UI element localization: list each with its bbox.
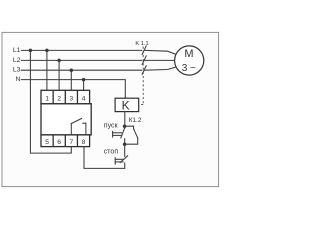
pushbutton ПУСК (start, NO) [113,126,125,144]
terminal 1 label [45,95,49,102]
junction dot L1 left tap [29,49,33,53]
internal relay output contact (terminals 7-8) [71,119,86,135]
contact K1.1 pole L3 blade [142,66,146,75]
svg-text:7: 7 [69,139,73,146]
node L3 [13,67,21,74]
node N [15,76,20,83]
svg-text:пуск: пуск [104,122,119,129]
svg-text:6: 6 [57,139,61,146]
pushbutton СТОП (stop, NC) [115,144,127,168]
junction dot start branch top [123,124,127,128]
svg-text:4: 4 [82,95,86,102]
svg-text:3 ~: 3 ~ [182,63,196,74]
node L1 [13,47,21,54]
node L2 [13,57,21,64]
terminal 8 label [82,139,86,146]
wire K1.1 to motor phase 3 [145,67,176,70]
terminal 5 label [45,139,49,146]
junction dot L1 to terminal 1 [45,49,49,53]
contact K1.1 pole L1 blade [142,46,176,75]
motor M 3~ [175,46,204,75]
wire L3 horizontal [21,69,142,71]
wire terminal 8 to stop button [84,147,125,169]
svg-text:M: M [184,48,193,60]
pushbutton ПУСК label [104,122,119,129]
terminal 4 label [82,95,86,102]
wire terminal 3 stub [70,70,72,90]
relay module (device body) [41,90,91,146]
junction dot L3 to terminal 3 [70,68,74,72]
svg-text:8: 8 [82,139,86,146]
svg-text:К1.2: К1.2 [129,117,142,124]
contact K1.2 (holding, NO) [125,126,138,144]
svg-text:5: 5 [45,139,49,146]
svg-text:2: 2 [57,95,61,102]
svg-text:стоп: стоп [104,148,119,155]
contact K1.2 label [129,117,142,124]
contact K1.1 mechanical linkage (dashed) [139,47,143,105]
svg-text:K 1.1: K 1.1 [135,41,148,47]
pushbutton СТОП label [104,148,119,155]
wire L1 to terminal 7 (down, right, up) [30,50,71,153]
wire K1.1 to motor phase 1 [145,50,176,54]
wire L1 horizontal [21,49,142,51]
svg-text:L2: L2 [13,57,21,64]
terminal 7 label [69,139,73,146]
svg-text:3: 3 [69,95,73,102]
wire terminal 2 stub [58,60,60,90]
terminal 2 label [57,95,61,102]
svg-text:N: N [15,76,20,83]
svg-text:L3: L3 [13,67,21,74]
junction dot L2 to terminal 2 [57,59,61,63]
contact K1.1 label [135,41,148,47]
wire terminal 1 stub [46,50,48,90]
terminal 3 label [69,95,73,102]
contact K1.1 pole L2 blade [142,56,146,65]
wire terminal 4 stub [83,80,85,91]
wire L2 horizontal [21,59,142,61]
contactor coil K [115,98,139,112]
wire K1.1 to motor phase 2 [145,59,175,61]
svg-text:K: K [122,98,130,112]
terminal 6 label [57,139,61,146]
wire coil K to start circuit [124,112,126,127]
svg-text:1: 1 [45,95,49,102]
junction dot N to terminal 4 [82,78,86,82]
junction dot start branch bottom [123,142,127,146]
svg-text:L1: L1 [13,47,21,54]
wire N horizontal to coil K drop [21,80,125,99]
